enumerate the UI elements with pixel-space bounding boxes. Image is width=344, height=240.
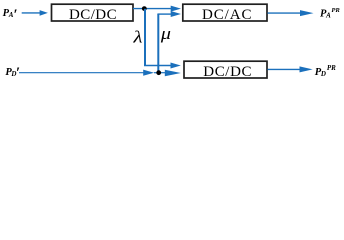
svg-text:D: D	[320, 70, 326, 78]
wire P_D' input line with inline arrow	[19, 70, 181, 77]
wire DC/AC output arrow	[268, 10, 314, 16]
svg-text:DC/AC: DC/AC	[202, 7, 252, 23]
svg-text:PR: PR	[327, 64, 336, 72]
svg-text:DC/DC: DC/DC	[203, 64, 252, 80]
wire P_A' input arrow	[22, 10, 48, 16]
junction node B	[156, 70, 161, 75]
wire lambda branch (down from node A, right into bottom DC/DC)	[144, 9, 181, 69]
svg-text:A: A	[325, 11, 331, 19]
svg-text:λ: λ	[132, 28, 142, 47]
junction node A	[142, 6, 147, 11]
svg-text:PR: PR	[331, 7, 340, 14]
svg-text:′: ′	[13, 7, 17, 23]
svg-text:μ: μ	[160, 24, 171, 43]
node label P_A'	[3, 7, 18, 23]
converter block DC/DC (bottom)	[184, 61, 267, 80]
wire mu branch (up from node B, right into DC/AC)	[157, 11, 181, 72]
wire bottom DC/DC output arrow	[268, 66, 313, 72]
converter block DC/DC (top)	[52, 4, 134, 23]
node label P_D^PR	[315, 64, 336, 78]
node label P_D'	[5, 65, 20, 81]
svg-text:DC/DC: DC/DC	[69, 7, 117, 23]
wire from DC/DC to DC/AC	[133, 6, 181, 12]
node label P_A^PR	[320, 7, 340, 20]
converter block DC/AC	[183, 4, 267, 23]
svg-text:′: ′	[16, 65, 20, 81]
